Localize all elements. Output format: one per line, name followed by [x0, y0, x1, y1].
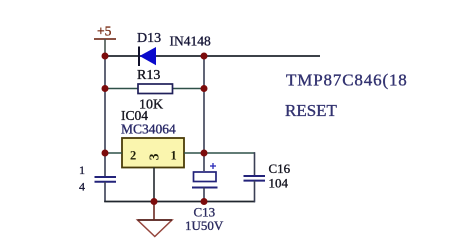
resistor R13: [138, 84, 173, 94]
junction ground / bottom rail: [151, 198, 158, 205]
label IN4148: [170, 34, 211, 49]
capacitor C? (left, labels 1 / 4) plates: [95, 177, 117, 182]
svg-text:D13: D13: [137, 31, 161, 46]
label 104: [269, 176, 289, 191]
wire resistor row left stub: [105, 88, 138, 90]
wire C16 bottom branch: [254, 181, 256, 203]
capacitor C13 body: [192, 172, 218, 202]
label 4 (left cap): [79, 180, 85, 194]
pin 2 wire stub: [105, 152, 122, 154]
wire C16 top branch: [204, 152, 255, 176]
junction R13 left: [102, 85, 109, 92]
svg-text:2: 2: [130, 149, 136, 163]
svg-text:4: 4: [79, 180, 85, 194]
label D13: [137, 31, 161, 46]
svg-text:1U50V: 1U50V: [185, 218, 224, 233]
pin number 1: [171, 149, 177, 163]
pin number 2: [130, 149, 136, 163]
junction at +5 / D13 anode-net: [102, 53, 109, 60]
junction pin1 / C13 top: [201, 150, 208, 157]
diode D13: [139, 47, 156, 67]
wire right vertical: [203, 56, 205, 171]
junction top right of D13: [201, 53, 208, 60]
svg-text:1: 1: [171, 149, 177, 163]
wire left vertical: [104, 56, 106, 176]
label 1 (left cap): [79, 163, 85, 177]
svg-text:1: 1: [79, 163, 85, 177]
net label RESET: [285, 101, 338, 120]
pin 3 wire to bottom rail: [153, 168, 155, 202]
junction pin2 / left cap: [102, 150, 109, 157]
svg-text:MC34064: MC34064: [121, 122, 176, 137]
capacitor C16 plates: [244, 176, 266, 181]
label IC04: [121, 108, 148, 123]
wire top rail: [105, 55, 320, 57]
label C13: [194, 205, 216, 220]
svg-text:IN4148: IN4148: [170, 34, 211, 49]
wire resistor row right stub: [173, 88, 205, 90]
label R13: [137, 68, 160, 83]
capacitor C13 (electrolytic) plus sign: [210, 163, 216, 169]
svg-text:TMP87C846(18: TMP87C846(18: [286, 71, 408, 90]
wire bottom rail: [104, 201, 255, 203]
svg-text:+5: +5: [97, 24, 112, 39]
wire left cap to bottom rail: [104, 182, 106, 202]
label C16: [269, 161, 291, 176]
svg-text:RESET: RESET: [285, 101, 338, 120]
IC U-IC04 body MC34064: [122, 138, 184, 168]
ground stub: [153, 202, 155, 221]
label MC34064: [121, 122, 176, 137]
label 10K: [139, 98, 163, 113]
power +5: [94, 24, 116, 57]
svg-text:3: 3: [147, 153, 162, 160]
svg-text:104: 104: [269, 176, 289, 191]
svg-text:R13: R13: [137, 68, 160, 83]
ground: [138, 220, 173, 237]
label 1U50V: [185, 218, 224, 233]
junction R13 right: [201, 85, 208, 92]
pin number 3 (rotated): [147, 153, 162, 160]
junction C13 bottom / bottom rail: [201, 198, 208, 205]
pin 1 wire stub: [184, 152, 204, 154]
svg-text:C16: C16: [269, 161, 291, 176]
net label TMP87C846(18: [286, 71, 408, 90]
